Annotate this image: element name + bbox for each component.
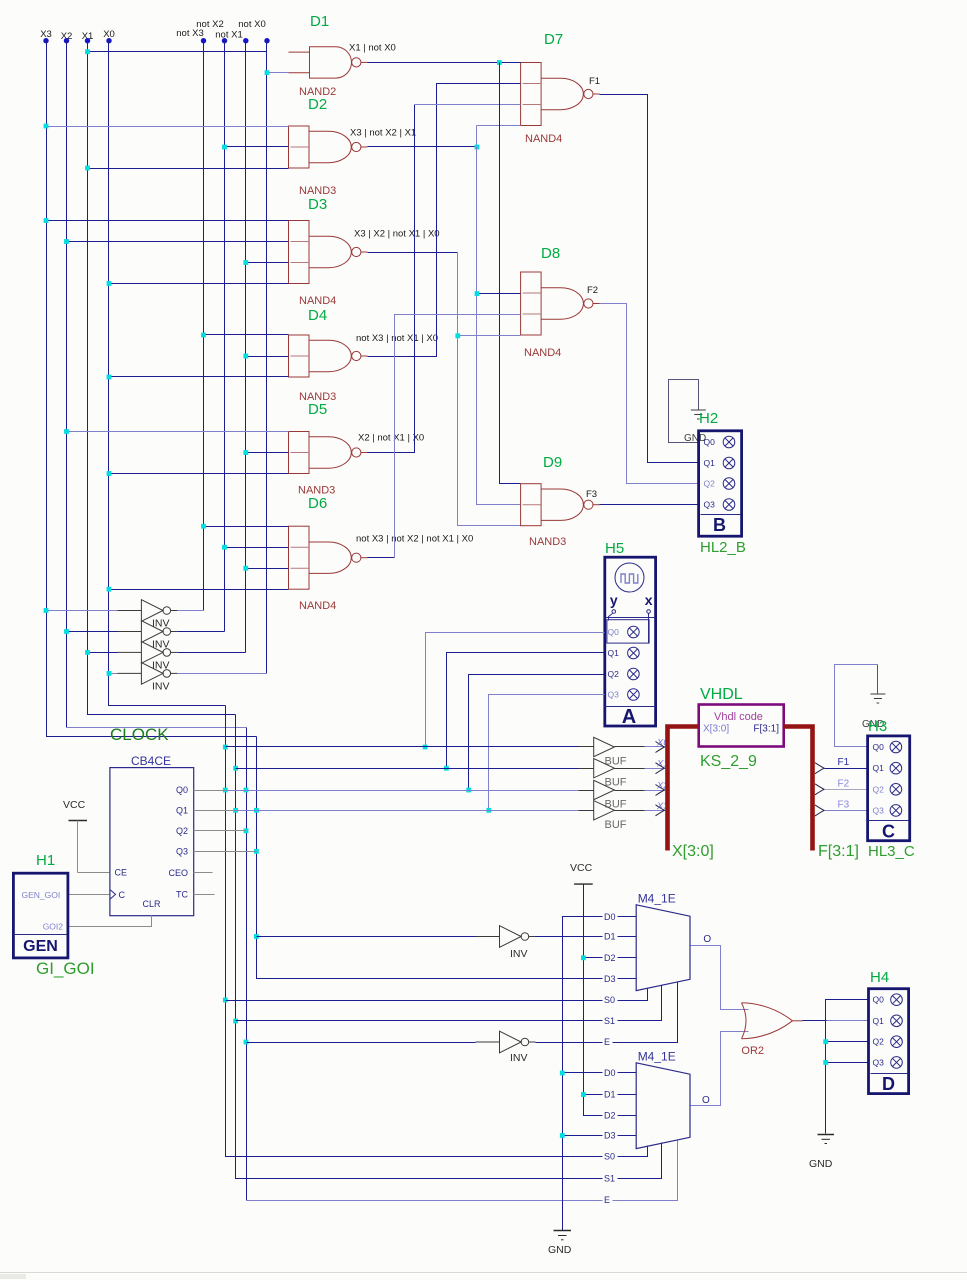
bus tap arrow X0 — [656, 742, 665, 753]
svg-text:Q3: Q3 — [704, 500, 716, 510]
mux pin labels lower — [603, 1068, 618, 1079]
svg-text:O: O — [703, 934, 711, 945]
junction X1-S1 — [233, 1019, 238, 1024]
junction GND-D0low — [560, 1071, 565, 1076]
indicator block H3 HL3_C — [868, 736, 910, 841]
svg-text:H3: H3 — [868, 718, 887, 735]
svg-text:GEN: GEN — [23, 938, 58, 955]
junction D6.X0 — [107, 587, 112, 592]
svg-text:F3: F3 — [586, 489, 597, 500]
wire INV4 input — [109, 673, 118, 675]
svg-text:E: E — [604, 1195, 610, 1205]
wire D1 input X1 — [88, 51, 267, 53]
svg-text:F2: F2 — [838, 778, 850, 789]
ground symbol H3 — [870, 694, 885, 703]
bus wire not X3 vertical — [203, 41, 205, 611]
wire INV-B output to E — [536, 983, 678, 1043]
wire VCC to D2 and D1-low D2-low — [584, 885, 637, 1116]
svg-text:F[3:1]: F[3:1] — [818, 843, 859, 860]
svg-text:D2: D2 — [604, 953, 616, 963]
wire INV3 input — [88, 652, 118, 654]
or gate OR2 — [742, 1003, 803, 1039]
svg-text:D3: D3 — [604, 1131, 616, 1141]
nand gate D3 — [289, 221, 368, 284]
svg-text:INV: INV — [510, 948, 528, 960]
junction D8.in4 — [455, 333, 460, 338]
wire D5 input X2 — [67, 431, 289, 433]
svg-text:Q1: Q1 — [873, 763, 885, 773]
svg-text:C: C — [882, 822, 895, 842]
wire H5 internal y hook — [609, 614, 613, 621]
svg-text:D0: D0 — [604, 1068, 616, 1078]
svg-text:CLR: CLR — [143, 899, 162, 909]
svg-text:D5: D5 — [308, 401, 327, 418]
svg-text:C: C — [119, 890, 126, 900]
wire Q0 row to BUF3 — [226, 790, 247, 792]
wire H4 GND chain — [826, 1000, 869, 1134]
junction X0-S0 — [223, 998, 228, 1003]
svg-text:NAND4: NAND4 — [299, 600, 336, 612]
nand gate D5 — [289, 432, 368, 474]
wire H2.Q0 to GND loop — [669, 380, 699, 443]
svg-text:D4: D4 — [308, 307, 327, 324]
svg-text:BUF: BUF — [605, 799, 627, 811]
svg-text:Q3: Q3 — [873, 1057, 885, 1067]
svg-text:D3: D3 — [308, 196, 327, 213]
wire Q3 stub — [194, 851, 257, 853]
bus ripper arrow F3 — [815, 805, 824, 816]
wire BUF1 input row — [226, 746, 579, 748]
wire INV3 output — [178, 652, 246, 654]
bus wire X1 vertical — [88, 41, 236, 715]
wire D3 input X2 — [67, 241, 289, 243]
bus wire X3 vertical — [47, 41, 257, 737]
svg-text:VCC: VCC — [570, 862, 593, 874]
junction X2-Q2 — [244, 828, 249, 833]
junction INV4 input — [107, 671, 112, 676]
buffer BUF3 — [594, 780, 615, 799]
wire GEN_GOI to C — [68, 894, 110, 896]
svg-text:GND: GND — [809, 1158, 833, 1170]
junction D8.in2 — [475, 291, 480, 296]
wire E lower run — [247, 1140, 678, 1201]
bus tap arrow X2 — [656, 785, 665, 796]
junction X1-Q1 — [233, 808, 238, 813]
wire D5 input notX1 — [246, 452, 289, 454]
junction X2-row790 — [244, 788, 249, 793]
junction D2.out branch — [475, 145, 480, 150]
wire D3 input notX1 — [246, 262, 289, 264]
wire lower O to OR2 — [691, 1032, 749, 1106]
svg-text:VCC: VCC — [63, 799, 86, 811]
svg-text:BUF: BUF — [605, 819, 627, 831]
junction VCC-D1low — [581, 1092, 586, 1097]
svg-text:X3 | X2 | not X1 | X0: X3 | X2 | not X1 | X0 — [354, 229, 440, 240]
svg-text:M4_1E: M4_1E — [638, 1049, 676, 1063]
wire X2 net vertical — [246, 728, 248, 1201]
wire H5 internal x drop — [648, 614, 650, 644]
bus wire X0 vertical — [109, 41, 226, 706]
wire OR2 output to H4.Q1 — [803, 1020, 827, 1022]
nand gate D4 — [289, 335, 368, 377]
wire X0 net vertical to S0 — [226, 706, 648, 1157]
wire Q0 stub — [194, 790, 226, 792]
svg-text:Q1: Q1 — [873, 1016, 885, 1026]
junction D2.notX2 — [222, 145, 227, 150]
junction X3-INVA — [254, 934, 259, 939]
junction D3.X3 — [44, 218, 49, 223]
svg-text:D1: D1 — [310, 13, 329, 30]
nand gate D8 — [521, 272, 600, 335]
inverter INV3 — [117, 642, 177, 664]
wire BUF3 output — [615, 790, 645, 792]
wire D5.out to D7.in3 — [368, 105, 415, 453]
wire D2 input X3 — [47, 126, 289, 128]
svg-text:Vhdl code: Vhdl code — [714, 711, 763, 723]
junction X3-Q3 — [254, 849, 259, 854]
svg-text:F[3:1]: F[3:1] — [753, 724, 779, 735]
junction D6.notX1 — [243, 566, 248, 571]
svg-text:F2: F2 — [587, 285, 598, 296]
wire Q1 row to BUF4 — [236, 810, 257, 812]
junction INV1 input — [44, 608, 49, 613]
svg-text:OR2: OR2 — [741, 1045, 764, 1057]
svg-text:BUF: BUF — [605, 756, 627, 768]
svg-text:H5: H5 — [605, 540, 624, 557]
junction D4.notX3 — [201, 333, 206, 338]
junction D5.X0 — [107, 471, 112, 476]
wire INV-A input — [257, 936, 476, 938]
svg-text:Q1: Q1 — [608, 648, 620, 658]
ground symbol H4 — [818, 1135, 835, 1144]
junction D3.X0 — [107, 281, 112, 286]
svg-text:D7: D7 — [544, 31, 563, 48]
svg-text:F1: F1 — [589, 76, 600, 87]
svg-text:not X3 | not X1 | X0: not X3 | not X1 | X0 — [356, 333, 438, 344]
svg-text:D2: D2 — [604, 1111, 616, 1121]
svg-text:S0: S0 — [604, 995, 615, 1005]
junction D4.notX1 — [243, 354, 248, 359]
svg-text:VHDL: VHDL — [700, 686, 743, 703]
wire D3 input X3 — [47, 220, 289, 222]
svg-text:Q0: Q0 — [704, 437, 716, 447]
wire D1 input notX0 — [267, 72, 289, 74]
wire H5.Q3 from X3 net — [489, 695, 605, 811]
svg-text:Q0: Q0 — [608, 627, 620, 637]
svg-text:Q0: Q0 — [176, 785, 188, 795]
svg-text:F3: F3 — [838, 799, 850, 810]
bus wire not X0 vertical — [266, 41, 268, 674]
bottom scrollbar edge — [0, 1272, 967, 1274]
svg-text:B: B — [713, 515, 726, 535]
terminal dot not X3 — [201, 38, 206, 43]
nand gate D9 — [521, 484, 600, 526]
wire H5.Q0 from X0 net — [426, 633, 605, 747]
wire D4.out to D7.in2 — [368, 84, 521, 357]
bus tap arrow X1 — [656, 763, 665, 774]
bus ripper arrow F2 — [815, 784, 824, 795]
wire D1-branch down to D8.in1 and D9.in1 — [500, 63, 521, 484]
svg-text:D0: D0 — [604, 912, 616, 922]
wire BUF4 input row — [257, 810, 579, 812]
svg-text:A: A — [622, 706, 636, 728]
wire D2.out — [368, 146, 477, 148]
svg-text:H2: H2 — [699, 410, 718, 427]
terminal dot not X0 — [264, 38, 269, 43]
junction D2.X3 — [44, 124, 49, 129]
inverter INV-A — [476, 926, 536, 948]
svg-text:not X2: not X2 — [196, 19, 223, 30]
wire F3 to H2.Q3 — [600, 504, 699, 506]
inverter INV-B — [476, 1031, 536, 1053]
generator block H1 GI_GOI — [13, 873, 68, 958]
svg-text:HL3_C: HL3_C — [868, 843, 915, 860]
junction H5.Q0 tap — [423, 745, 428, 750]
wire BUF3 input row — [247, 790, 579, 792]
svg-text:Q0: Q0 — [873, 742, 885, 752]
wire Q2 stub — [194, 830, 247, 832]
svg-text:X1 | not X0: X1 | not X0 — [349, 43, 396, 54]
junction D1.notX0 — [265, 70, 270, 75]
junction D3.notX1 — [243, 260, 248, 265]
junction INV3 input — [85, 650, 90, 655]
inverter INV4 — [117, 663, 177, 685]
junction D4.X0 — [107, 375, 112, 380]
wire H3.Q0 to GND loop — [835, 665, 878, 747]
svg-text:CE: CE — [115, 868, 128, 878]
svg-text:not X3 | not X2 | not X1 | X0: not X3 | not X2 | not X1 | X0 — [356, 534, 473, 545]
junction GND-D3low — [560, 1133, 565, 1138]
junction D7.in1 branch — [497, 60, 502, 65]
svg-text:not X1: not X1 — [215, 30, 242, 41]
wire GOI2 to CLR — [68, 916, 152, 927]
junction D1.X1 — [85, 49, 90, 54]
wire D7.in4 from D2 — [477, 125, 521, 127]
wire D6.out up to D8.in3 — [368, 557, 395, 559]
terminal dot not X2 — [222, 38, 227, 43]
wire D2 input X1 — [88, 168, 289, 170]
svg-text:O: O — [702, 1095, 710, 1106]
mux pin labels upper — [603, 911, 618, 922]
inverter INV2 — [117, 621, 177, 643]
svg-text:not X0: not X0 — [238, 19, 265, 30]
junction H5.Q2 tap — [466, 788, 471, 793]
wire S0 upper — [226, 989, 648, 1001]
nand gate D1 — [289, 47, 368, 78]
svg-text:D1: D1 — [604, 1090, 616, 1100]
junction H4.Q2 gnd — [823, 1039, 828, 1044]
bus wire not X1 vertical — [245, 41, 247, 653]
svg-text:D: D — [882, 1074, 895, 1094]
wire H5.Q2 from X2 net — [469, 675, 605, 791]
wire D4 input notX1 — [246, 356, 289, 358]
svg-text:CEO: CEO — [168, 868, 188, 878]
indicator block H5 with clock symbol — [605, 557, 656, 726]
terminal dot X0 — [106, 38, 111, 43]
junction X0-Q0 — [223, 788, 228, 793]
svg-text:Q2: Q2 — [704, 479, 716, 489]
junction H4.Q3 gnd — [823, 1060, 828, 1065]
junction VCC-D2up — [581, 955, 586, 960]
wire F1 to H2.Q1 — [600, 95, 699, 463]
svg-text:y: y — [610, 592, 618, 608]
svg-text:Q0: Q0 — [873, 995, 885, 1005]
svg-text:NAND3: NAND3 — [529, 536, 566, 548]
wire F2 to H3 — [825, 789, 868, 791]
svg-text:Q2: Q2 — [176, 826, 188, 836]
junction H5.Q1 tap — [444, 766, 449, 771]
wire D4 input X0 — [109, 376, 289, 378]
wire S1 upper — [236, 986, 662, 1021]
junction D3.X2 — [64, 239, 69, 244]
wire INV-B input — [247, 1042, 476, 1044]
svg-text:INV: INV — [152, 680, 170, 692]
wire F2 to H2.Q2 — [600, 304, 699, 484]
wire BUF1 output — [615, 746, 645, 748]
wire INV-A output to D1 — [536, 936, 637, 938]
junction INV2 input — [64, 629, 69, 634]
svg-text:NAND4: NAND4 — [525, 133, 562, 145]
svg-text:NAND4: NAND4 — [524, 347, 561, 359]
junction D5.X2 — [64, 429, 69, 434]
svg-text:CB4CE: CB4CE — [131, 754, 171, 768]
nand gate D7 — [521, 63, 600, 126]
buffer BUF1 — [594, 737, 615, 756]
terminal dot X2 — [64, 38, 69, 43]
wire X1 net vertical to S1 — [236, 715, 662, 1179]
svg-text:Q1: Q1 — [704, 458, 716, 468]
svg-text:D9: D9 — [543, 454, 562, 471]
terminal dot X1 — [85, 38, 90, 43]
svg-text:X[3:0]: X[3:0] — [672, 843, 714, 860]
svg-text:F1: F1 — [838, 757, 850, 768]
wire D6 input notX3 — [204, 526, 289, 528]
svg-text:D8: D8 — [541, 245, 560, 262]
junction D6.notX3 — [201, 524, 206, 529]
svg-text:Q2: Q2 — [608, 669, 620, 679]
wire D6 input notX2 — [225, 547, 289, 549]
bus wire not X2 vertical — [224, 41, 226, 632]
wire X2 corner run — [67, 727, 247, 729]
svg-text:X3 | not X2 | X1: X3 | not X2 | X1 — [350, 128, 416, 139]
svg-text:KS_2_9: KS_2_9 — [700, 753, 757, 770]
svg-text:D1: D1 — [604, 932, 616, 942]
svg-text:Q1: Q1 — [176, 805, 188, 815]
svg-text:D6: D6 — [308, 495, 327, 512]
svg-text:M4_1E: M4_1E — [638, 891, 676, 905]
wire D2 input notX2 — [225, 146, 289, 148]
wire H5.Q1 from X1 net — [447, 653, 605, 769]
terminal dot not X1 — [243, 38, 248, 43]
svg-text:GEN_GOI: GEN_GOI — [22, 890, 61, 900]
bus tap arrow X3 — [656, 805, 665, 816]
wire H5 internal loop — [607, 620, 649, 643]
wire BUF2 input row — [236, 768, 579, 770]
svg-text:Q2: Q2 — [873, 784, 885, 794]
svg-text:D3: D3 — [604, 974, 616, 984]
svg-text:GND: GND — [548, 1244, 572, 1256]
indicator block H2 HL2_B — [699, 431, 742, 536]
bus wire X2 vertical — [66, 41, 68, 728]
wire F1 to H3 — [825, 768, 868, 770]
svg-text:HL2_B: HL2_B — [700, 539, 746, 556]
svg-text:D2: D2 — [308, 96, 327, 113]
buffer BUF2 — [594, 759, 615, 778]
wire D1.out to D7.in1 — [368, 62, 521, 64]
wire INV2 output — [178, 631, 225, 633]
wire Q1 stub — [194, 810, 236, 812]
junction X0-BUF1 — [223, 745, 228, 750]
ground symbol H2 — [691, 410, 706, 419]
junction X2-INVB — [244, 1040, 249, 1045]
nand gate D2 — [289, 126, 368, 168]
junction X3-row810 — [254, 808, 259, 813]
svg-text:INV: INV — [510, 1052, 528, 1064]
junction D5.notX1 — [243, 450, 248, 455]
buffer BUF4 — [594, 801, 615, 820]
wire D5 input X0 — [109, 473, 289, 475]
svg-text:S1: S1 — [604, 1016, 615, 1026]
wire D4 input notX3 — [204, 334, 289, 336]
svg-text:S0: S0 — [604, 1152, 615, 1162]
svg-text:X[3:0]: X[3:0] — [703, 724, 729, 735]
svg-text:CLOCK: CLOCK — [110, 725, 169, 744]
svg-text:H4: H4 — [870, 969, 889, 986]
wire INV4 output — [178, 673, 267, 675]
bus X[3:0] thick — [668, 727, 699, 851]
svg-text:GI_GOI: GI_GOI — [36, 959, 95, 978]
svg-text:S1: S1 — [604, 1174, 615, 1184]
svg-text:GOI2: GOI2 — [43, 922, 64, 932]
svg-text:E: E — [604, 1037, 610, 1047]
svg-text:Q3: Q3 — [873, 805, 885, 815]
wire F3 to H3 — [825, 810, 868, 812]
bus F[3:1] thick — [784, 727, 813, 851]
junction H5.Q3 tap — [486, 808, 491, 813]
svg-text:Q2: Q2 — [873, 1037, 885, 1047]
junction X1-BUF2 — [233, 766, 238, 771]
wire GND net D0/D3 — [563, 917, 637, 1231]
wire BUF2 output — [615, 768, 645, 770]
svg-text:Q3: Q3 — [608, 690, 620, 700]
wire INV2 input — [67, 631, 118, 633]
svg-text:NAND4: NAND4 — [299, 295, 336, 307]
wire D6 input X0 — [109, 589, 289, 591]
wire D3.out down to D8.in4 and D9.in3 — [368, 252, 458, 254]
counter block CB4CE — [110, 768, 194, 916]
wire BUF4 output — [615, 810, 645, 812]
svg-text:Q3: Q3 — [176, 846, 188, 856]
wire INV1 input — [47, 610, 118, 612]
wire D3 input X0 — [109, 283, 289, 285]
wire INV1 output — [178, 610, 204, 612]
terminal dot X3 — [43, 38, 48, 43]
svg-text:x: x — [645, 592, 653, 608]
wire D6 input notX1 — [246, 568, 289, 570]
junction D6.notX2 — [222, 545, 227, 550]
junction D2.X1 — [85, 166, 90, 171]
svg-text:TC: TC — [176, 890, 188, 900]
multiplexer M4_1E upper — [636, 905, 690, 991]
top input bus terminals and labels — [40, 19, 266, 42]
ground symbol bottom — [554, 1231, 572, 1240]
multiplexer M4_1E lower — [636, 1063, 690, 1149]
svg-text:H1: H1 — [36, 852, 55, 869]
nand gate D6 — [289, 526, 368, 589]
inverter INV1 — [117, 600, 177, 622]
wire upper O to OR2 — [691, 946, 749, 1010]
wire D2-branch down to D8.in2 and D9.in2 — [477, 147, 521, 505]
